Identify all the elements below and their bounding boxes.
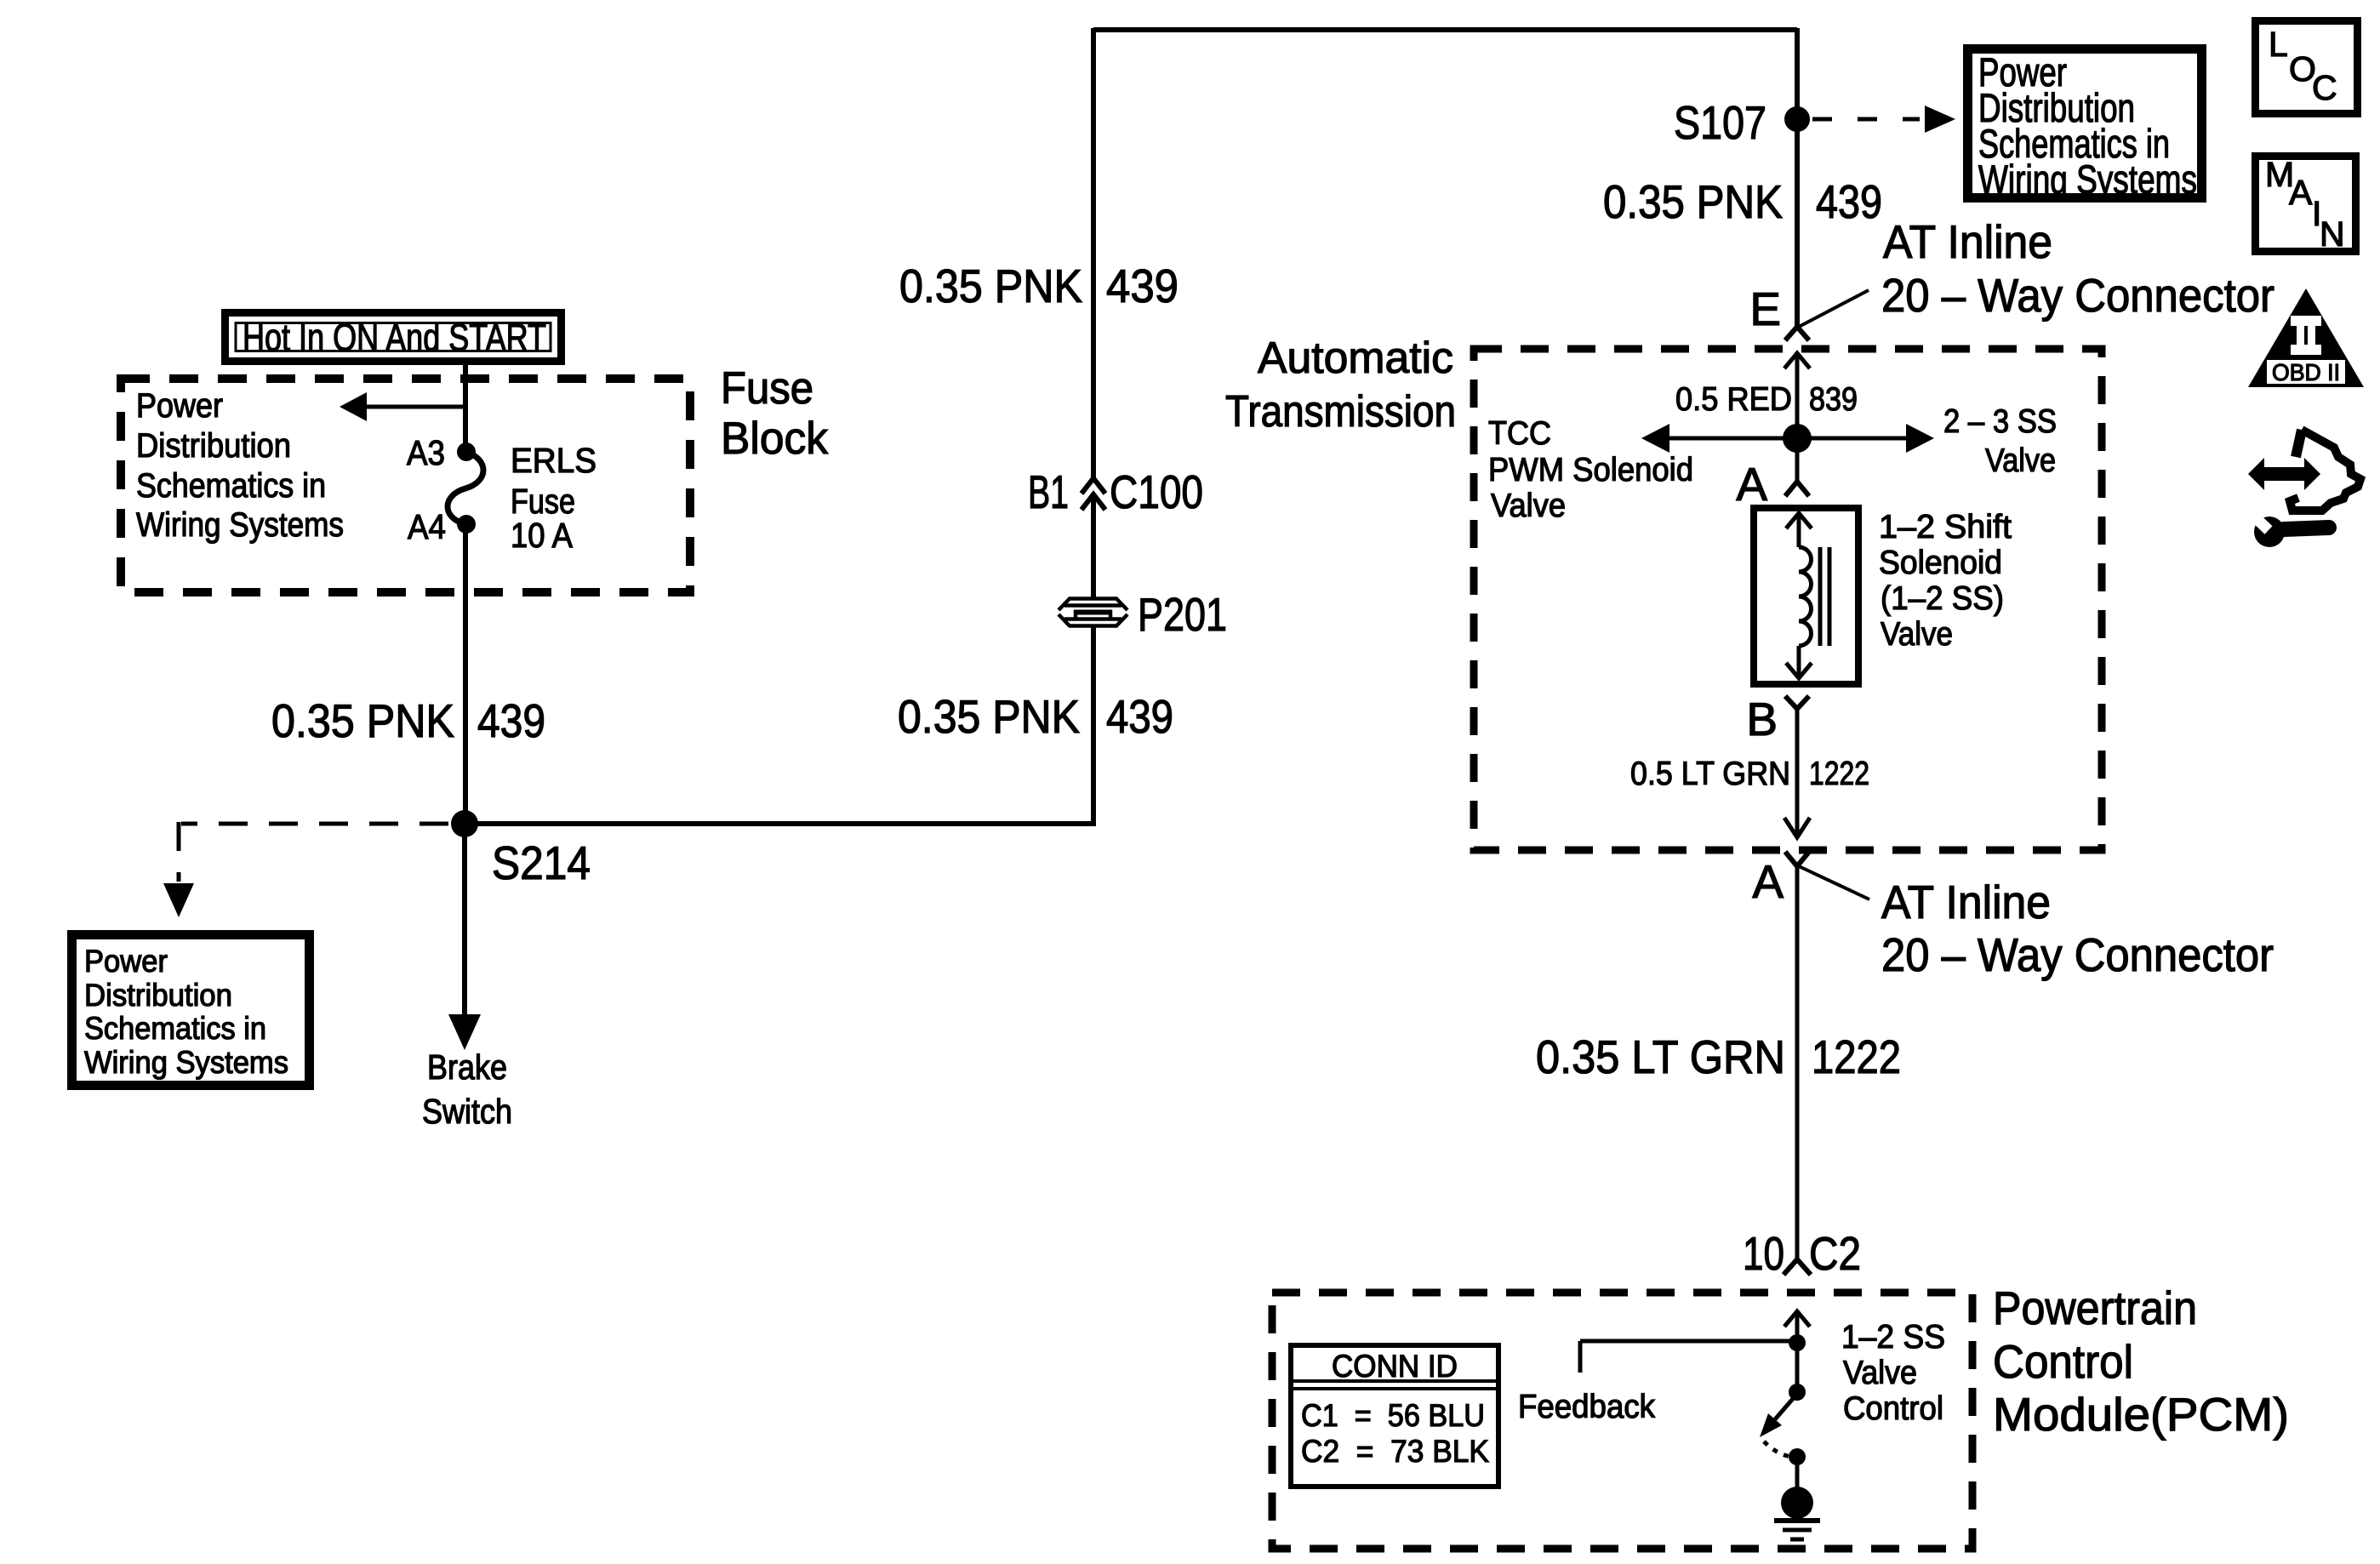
svg-text:C1 = 56 BLU: C1 = 56 BLU <box>1301 1398 1485 1433</box>
svg-text:Block: Block <box>721 414 828 464</box>
grommet P201 symbol <box>1059 599 1127 626</box>
wire: junction down to solenoid pin A <box>1795 438 1800 482</box>
svg-text:0.35 PNK: 0.35 PNK <box>271 694 454 747</box>
svg-text:Wiring Systems: Wiring Systems <box>136 506 344 544</box>
svg-text:20 – Way Connector: 20 – Way Connector <box>1881 269 2274 322</box>
box: Automatic Transmission (dashed) <box>1474 349 2102 850</box>
svg-text:TCC: TCC <box>1488 415 1551 452</box>
svg-text:AT Inline: AT Inline <box>1883 215 2052 268</box>
svg-text:Control: Control <box>1993 1335 2133 1388</box>
svg-text:A: A <box>1752 855 1784 908</box>
svg-text:Schematics in: Schematics in <box>84 1011 266 1046</box>
wire: S214 down to brake switch arrow <box>462 824 467 1018</box>
svg-text:10: 10 <box>1743 1227 1784 1280</box>
icon: MAIN box <box>2256 157 2356 252</box>
svg-text:20 – Way Connector: 20 – Way Connector <box>1881 928 2274 981</box>
icon: service wrench / shift symbol <box>2248 430 2360 547</box>
svg-text:Wiring Systems: Wiring Systems <box>84 1045 288 1080</box>
svg-text:Distribution: Distribution <box>84 978 232 1013</box>
switch arm with arrowhead <box>1775 1394 1797 1419</box>
box: Hot In ON And START (double border) <box>225 313 562 362</box>
solenoid internal: core bars <box>1818 547 1823 646</box>
wire: to ground <box>1795 1457 1800 1489</box>
wire: top horizontal feed 439 <box>1093 27 1797 32</box>
svg-text:0.35 LT GRN: 0.35 LT GRN <box>1536 1030 1785 1083</box>
wire: feedback tap line <box>1580 1339 1797 1344</box>
wire: arrow to 2-3 SS Valve (right) <box>1797 437 1909 441</box>
icon: OBD II triangle <box>2248 288 2364 387</box>
fuse ERLS element (S-curve) <box>448 452 483 524</box>
svg-text:439: 439 <box>1816 175 1882 228</box>
svg-text:0.5 LT GRN: 0.5 LT GRN <box>1630 756 1790 792</box>
wire: LT GRN down to PCM <box>1795 866 1800 1259</box>
svg-text:C100: C100 <box>1110 465 1203 518</box>
svg-text:Valve: Valve <box>1843 1355 1917 1391</box>
wire: right vertical S107 drop <box>1795 28 1800 327</box>
svg-text:A: A <box>2289 173 2313 212</box>
solenoid internal: down arrow <box>1797 646 1801 678</box>
wire: switch upper contact <box>1795 1343 1800 1390</box>
switch travel dotted arc <box>1764 1441 1795 1457</box>
node S214 junction dot <box>451 810 478 837</box>
arrow to power distribution (down) <box>163 883 194 917</box>
svg-text:B: B <box>1746 693 1778 745</box>
wire: into PCM with up arrow <box>1795 1311 1800 1341</box>
connector A (lower 20-way) female half <box>1785 852 1809 866</box>
svg-text:0.35 PNK: 0.35 PNK <box>899 260 1082 312</box>
svg-text:1222: 1222 <box>1809 756 1869 792</box>
svg-text:A4: A4 <box>408 507 446 546</box>
svg-text:439: 439 <box>1106 690 1173 743</box>
svg-text:A3: A3 <box>407 433 445 472</box>
svg-text:439: 439 <box>1106 260 1179 312</box>
box: Powertrain Control Module (dashed) <box>1272 1293 1972 1549</box>
svg-text:P201: P201 <box>1138 588 1227 641</box>
wire: center vertical trunk below P201 to S214 line <box>1091 627 1096 824</box>
connector pin B chevron <box>1785 696 1809 709</box>
svg-text:OBD II: OBD II <box>2272 359 2340 385</box>
wire: fuse output down to S214 <box>463 524 468 824</box>
wire: dashed reference drop to power distribution box <box>177 822 181 882</box>
arrowhead into power distribution box (right) <box>1925 106 1955 133</box>
svg-text:1–2 Shift: 1–2 Shift <box>1879 509 2012 545</box>
connector C2 chevron <box>1784 1259 1811 1275</box>
svg-text:0.5 RED: 0.5 RED <box>1675 381 1792 418</box>
svg-text:B1: B1 <box>1028 465 1069 518</box>
wire: dashed arrow from S107 to power distribution schematics <box>1812 117 1920 122</box>
svg-text:439: 439 <box>477 694 545 747</box>
leader line to AT Inline connector label (top) <box>1799 290 1869 327</box>
pin A3 dot <box>457 442 476 461</box>
connector C100 chevrons <box>1082 478 1105 494</box>
connector pin A chevron <box>1785 482 1809 496</box>
pin A4 dot <box>457 515 476 534</box>
svg-text:Feedback: Feedback <box>1518 1389 1655 1425</box>
svg-text:L: L <box>2269 25 2288 64</box>
wire: arrow to TCC PWM Solenoid Valve (left) <box>1667 437 1797 441</box>
icon: LOC locator box <box>2256 21 2358 114</box>
svg-text:C: C <box>2312 68 2337 107</box>
svg-text:Powertrain: Powertrain <box>1993 1281 2197 1334</box>
node: TCC solenoid junction dot <box>1783 424 1812 453</box>
svg-text:Control: Control <box>1843 1390 1943 1427</box>
svg-text:ERLS: ERLS <box>511 441 596 480</box>
svg-text:Solenoid: Solenoid <box>1879 545 2002 581</box>
svg-text:10 A: 10 A <box>511 516 574 555</box>
svg-text:AT Inline: AT Inline <box>1881 876 2051 928</box>
leader line to AT Inline label (bottom) <box>1799 866 1869 899</box>
node S107 junction dot <box>1784 106 1810 132</box>
wire: dashed reference line from S214 to left <box>181 822 448 826</box>
ground terminal dot <box>1781 1487 1813 1519</box>
svg-text:CONN ID: CONN ID <box>1332 1349 1458 1384</box>
svg-text:C2 = 73 BLK: C2 = 73 BLK <box>1301 1434 1489 1469</box>
svg-text:C2: C2 <box>1809 1227 1861 1280</box>
svg-text:Fuse: Fuse <box>721 363 813 414</box>
svg-text:A: A <box>1736 458 1767 511</box>
svg-text:S214: S214 <box>492 836 591 889</box>
svg-text:Schematics in: Schematics in <box>136 467 326 505</box>
svg-text:Valve: Valve <box>1491 488 1566 524</box>
wire: E pin into transmission with up arrow <box>1795 353 1800 438</box>
svg-text:S107: S107 <box>1674 96 1766 149</box>
box: power distribution schematics (top right) <box>1968 49 2202 198</box>
svg-text:Transmission: Transmission <box>1225 387 1456 437</box>
solenoid internal: coil <box>1799 547 1812 646</box>
node: PCM input dot <box>1789 1334 1806 1351</box>
connector E (AT inline 20-way) female half <box>1785 327 1809 340</box>
svg-text:Wiring Systems: Wiring Systems <box>1978 157 2197 202</box>
svg-text:Valve: Valve <box>1985 442 2056 479</box>
svg-text:PWM Solenoid: PWM Solenoid <box>1488 452 1693 488</box>
svg-text:Hot In ON And START: Hot In ON And START <box>243 316 546 359</box>
wire: center vertical trunk (PNK 439) upper <box>1091 28 1096 478</box>
table: CONN ID <box>1291 1345 1498 1487</box>
svg-text:Valve: Valve <box>1881 616 1953 653</box>
svg-text:1222: 1222 <box>1812 1030 1901 1083</box>
arrow down at transmission boundary <box>1784 818 1810 837</box>
svg-text:Power: Power <box>84 944 168 979</box>
wire: horizontal S214 to center trunk <box>465 821 1096 826</box>
svg-text:N: N <box>2320 214 2345 254</box>
svg-text:839: 839 <box>1809 381 1858 418</box>
node: switch lower contact dot <box>1789 1448 1806 1465</box>
svg-text:Distribution: Distribution <box>136 427 291 465</box>
arrow from fuse feed to power distribution (left) <box>364 405 465 409</box>
svg-text:0.35 PNK: 0.35 PNK <box>1603 175 1783 228</box>
svg-text:2 – 3 SS: 2 – 3 SS <box>1943 403 2057 440</box>
svg-text:0.35 PNK: 0.35 PNK <box>898 690 1080 743</box>
wire: solenoid pin B down <box>1795 709 1800 837</box>
svg-text:Power: Power <box>136 387 223 425</box>
svg-text:Automatic: Automatic <box>1258 334 1453 383</box>
box: Fuse Block (dashed) <box>121 379 690 592</box>
solenoid internal: up arrow <box>1797 513 1801 547</box>
svg-text:Brake: Brake <box>427 1047 507 1087</box>
box: power distribution schematics (bottom left) <box>72 935 310 1086</box>
node: switch pivot dot <box>1789 1384 1806 1401</box>
wire: center vertical trunk between C100 and P201 <box>1091 494 1096 598</box>
arrowhead brake switch (down) <box>448 1014 481 1050</box>
box: 1-2 shift solenoid <box>1754 508 1858 684</box>
svg-text:E: E <box>1749 283 1781 335</box>
ground symbol <box>1774 1518 1820 1523</box>
svg-text:1–2 SS: 1–2 SS <box>1841 1319 1945 1356</box>
svg-text:Switch: Switch <box>422 1092 512 1131</box>
svg-text:Module(PCM): Module(PCM) <box>1993 1388 2289 1441</box>
wire: fuse block feed from Hot box <box>463 363 468 447</box>
svg-text:(1–2 SS): (1–2 SS) <box>1881 580 2004 617</box>
